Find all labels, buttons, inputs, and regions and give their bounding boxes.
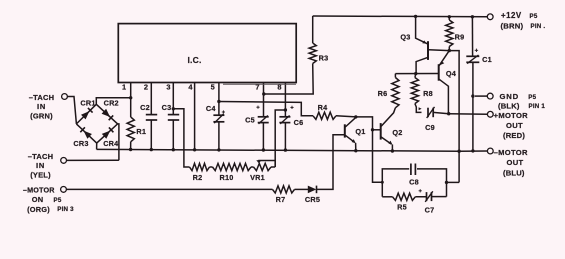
svg-text:R3: R3 (319, 54, 329, 63)
wire pin 5 lead (218, 83, 220, 116)
capacitor C9 (427, 108, 429, 118)
svg-text:R8: R8 (423, 89, 433, 98)
capacitor C2 (146, 114, 157, 116)
svg-text:–MOTOR: –MOTOR (23, 186, 55, 195)
wire MOTOR ON line (66, 188, 272, 190)
wire pin 5 node to R4 (219, 102, 313, 116)
svg-text:VR1: VR1 (250, 173, 265, 182)
wire R1 to bus (130, 142, 132, 150)
svg-text:I.C.: I.C. (187, 55, 201, 65)
svg-text:(YEL): (YEL) (30, 171, 51, 180)
wire bridge edges (76, 104, 117, 143)
svg-text:Q2: Q2 (392, 128, 402, 137)
capacitor C3 (168, 114, 179, 116)
polarity + C6 (290, 106, 293, 108)
wire C7 to loop right edge (432, 196, 447, 198)
svg-text:CR2: CR2 (104, 99, 119, 108)
diode CR5 (308, 186, 317, 194)
resistor R3 (312, 16, 314, 43)
svg-text:C2: C2 (140, 103, 150, 112)
resistor R6 (392, 78, 399, 108)
svg-text:C7: C7 (425, 205, 435, 214)
diode CR1 (81, 111, 89, 119)
wire pin 3 lead (172, 83, 174, 115)
wire bridge top vertex to pin1 node (96, 98, 130, 105)
node Q1 collector (354, 115, 357, 118)
svg-text:5: 5 (211, 83, 215, 92)
svg-text:PIN 1: PIN 1 (529, 103, 546, 110)
capacitor C7 (426, 192, 428, 201)
wire R8 to C9 (415, 104, 422, 113)
svg-text:ON: ON (32, 195, 44, 204)
wire R10 to VR1 (251, 166, 254, 168)
svg-text:C5: C5 (245, 115, 255, 124)
svg-text:IN: IN (37, 102, 46, 111)
node Q2 base (371, 128, 374, 131)
svg-text:GND: GND (500, 92, 519, 101)
polarity + C7 (419, 190, 422, 192)
svg-text:(ORG): (ORG) (27, 205, 50, 214)
terminal +12V P5 (BRN) (487, 14, 493, 20)
polarity + C9 (419, 107, 422, 110)
resistor R4 (313, 112, 336, 119)
node C8 loop left mid (381, 181, 384, 184)
svg-text:(BRN): (BRN) (501, 22, 524, 31)
variable resistor VR1 (254, 163, 272, 170)
node Q3 emitter rail (414, 15, 417, 18)
svg-text:R10: R10 (220, 173, 234, 182)
svg-text:CR1: CR1 (80, 99, 95, 108)
node pin5 (217, 100, 220, 103)
svg-text:OUT: OUT (507, 158, 524, 167)
svg-text:2: 2 (144, 83, 148, 92)
svg-text:R4: R4 (318, 103, 328, 112)
transistor Q4 (438, 64, 440, 81)
wire pin 2 lead (150, 83, 152, 115)
wire VR1 riser to pin 8 node (275, 110, 285, 167)
svg-text:C4: C4 (206, 104, 216, 113)
capacitor C8 (410, 164, 412, 176)
node pin7/R3 (262, 92, 265, 95)
capacitor C6 (279, 116, 290, 118)
node +MOTOR (447, 112, 450, 115)
wire C6 to bus (284, 123, 286, 151)
node R8 top (414, 72, 417, 75)
svg-text:(BLK): (BLK) (498, 102, 520, 111)
resistor R8 (414, 74, 417, 78)
svg-text:C9: C9 (425, 123, 435, 132)
wire C2 to bus (150, 120, 152, 150)
capacitor C4 (213, 114, 224, 116)
diode CR4 (102, 131, 111, 139)
svg-text:1: 1 (122, 83, 126, 92)
wire R3 bottom to pin 7 node (264, 64, 313, 95)
wire C1 to GND node (472, 62, 474, 96)
wire Q3 base vertical lower segment (458, 151, 460, 182)
svg-text:R1: R1 (136, 127, 146, 136)
svg-text:R5: R5 (397, 202, 407, 211)
wire Q1 node to Q2 base / C8 loop (356, 117, 383, 182)
svg-text:4: 4 (188, 83, 193, 92)
svg-text:CR5: CR5 (305, 195, 320, 204)
node loop right mid (445, 181, 448, 184)
svg-text:3: 3 (166, 83, 170, 92)
wire bridge right vertex down to YEL line (118, 124, 119, 160)
wire pin 1 lead (130, 83, 132, 118)
svg-text:(RED): (RED) (503, 131, 525, 140)
transistor Q2 (373, 129, 381, 131)
wire C4 to bus (218, 122, 220, 150)
svg-text:OUT: OUT (506, 121, 523, 130)
svg-text:IN: IN (36, 161, 45, 170)
svg-text:R2: R2 (193, 173, 203, 182)
svg-text:C8: C8 (409, 177, 419, 186)
wire loop right mid to Q3 base vertical (447, 181, 460, 183)
wire +12V rail (313, 15, 488, 18)
svg-text:R9: R9 (455, 33, 465, 42)
svg-text:P5: P5 (530, 13, 538, 20)
svg-text:Q3: Q3 (400, 33, 410, 42)
svg-text:–TACH: –TACH (29, 93, 54, 102)
svg-text:+12V: +12V (501, 11, 522, 20)
node pin8 (284, 108, 287, 111)
wire Q3 base line (429, 50, 459, 151)
node C1 rail (471, 15, 474, 18)
resistor R10 (213, 163, 252, 170)
node pin3 branch (172, 107, 175, 110)
transistor Q3 (427, 41, 429, 60)
capacitor C5 (258, 116, 269, 118)
svg-text:(BLU): (BLU) (503, 169, 525, 178)
diode CR2 (102, 109, 111, 117)
wire R5 to C7 (415, 196, 426, 198)
capacitor C1 (466, 55, 479, 57)
polarity + C1 (475, 49, 478, 51)
wire R7 to CR5 (295, 188, 309, 190)
wire ground bus (97, 149, 460, 151)
svg-text:+MOTOR: +MOTOR (494, 111, 529, 120)
svg-text:PIN .: PIN . (531, 23, 546, 30)
resistor R2 (190, 163, 210, 170)
resistor R1 (127, 117, 134, 142)
wire C1 top lead (471, 17, 473, 57)
diode CR3 (84, 131, 92, 139)
terminal +MOTOR OUT (RED) (449, 113, 488, 116)
wire R2 to R10 (210, 166, 213, 168)
svg-text:C6: C6 (294, 118, 304, 127)
svg-text:C1: C1 (482, 55, 492, 64)
terminal GND P5 PIN 1 (475, 95, 487, 97)
polarity + C4 (222, 111, 225, 113)
wire pin 4 to bus (194, 83, 196, 150)
wire GND node down to -MOTOR line (472, 96, 474, 151)
wire R6/R8 top rail to Q4 base (395, 73, 438, 75)
wire pin 8 lead (284, 83, 286, 117)
svg-text:Q4: Q4 (446, 69, 457, 78)
wire bridge bottom vertex to ground bus (96, 143, 98, 149)
wire GRN terminal to bridge left vertex (67, 97, 76, 124)
svg-text:CR3: CR3 (73, 139, 88, 148)
wire C8 loop left edge (382, 169, 409, 197)
wire R4 to Q1 collector node (336, 116, 356, 117)
node pin1/R1 junction (129, 96, 132, 99)
wire C3 to bus (172, 120, 174, 150)
node R9 top rail (448, 15, 451, 18)
wire pin3 branch down to R2 chain (173, 109, 189, 167)
svg-text:(GRN): (GRN) (30, 112, 53, 121)
polarity + C5 (256, 106, 259, 108)
node GND (471, 94, 474, 97)
svg-text:C3: C3 (162, 103, 172, 112)
wire CR5 riser to Q1 base (317, 135, 345, 190)
svg-text:Q1: Q1 (355, 127, 365, 136)
svg-text:R7: R7 (276, 195, 286, 204)
svg-text:–MOTOR: –MOTOR (494, 148, 528, 157)
svg-text:R6: R6 (378, 89, 388, 98)
wire C8 to loop right edge (417, 169, 447, 197)
wire YEL terminal line (67, 159, 119, 161)
svg-text:CR4: CR4 (103, 139, 119, 148)
IC U1 "I.C." box (118, 24, 296, 83)
wire pin 7 lead (263, 83, 265, 117)
svg-text:–TACH: –TACH (28, 152, 53, 161)
node R9 bottom (448, 49, 451, 52)
svg-text:PIN 3: PIN 3 (57, 206, 74, 213)
node bus to -MOTOR (457, 150, 460, 153)
wire C9 to +MOTOR node (433, 112, 449, 113)
resistor R7 (273, 186, 295, 193)
resistor R5 (382, 196, 392, 198)
wire VR1 end (271, 166, 275, 168)
resistor R9 (448, 17, 450, 20)
wire IC bottom edge scan double (223, 83, 296, 85)
svg-text:P5: P5 (528, 94, 536, 101)
transistor Q1 (344, 124, 346, 137)
svg-text:P5: P5 (54, 197, 62, 204)
wire C5 to bus (262, 123, 264, 150)
